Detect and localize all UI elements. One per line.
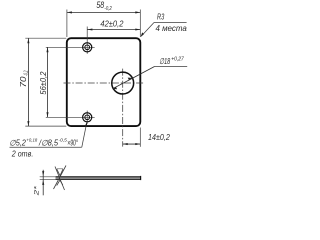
extension line right top (for 58/42) [139,10,141,38]
main horizontal axis (dash-dot) [64,82,144,84]
top small hole center lines [46,46,95,48]
D18 diameter leader [112,67,154,89]
svg-text:70: 70 [19,76,28,88]
side view plate bar [56,176,142,178]
svg-text:/∅8,5: /∅8,5 [38,138,58,147]
dimension 58 line [67,11,140,13]
thickness dimension line [42,170,44,196]
svg-text:42±0,2: 42±0,2 [100,18,123,28]
svg-text:-0,2: -0,2 [104,6,111,12]
dimension 56 line [47,47,49,117]
countersink holes leader [82,122,87,147]
dimension 56 text (rotated) [39,71,48,95]
plate outline (front view, 58x70 plate) [67,38,141,126]
R3 leader [141,23,154,37]
top small hole (countersunk, two circles) [83,43,92,52]
side view countersink cone (lower V) [57,180,63,185]
D18 shelf [155,66,188,68]
countersink callout shelf [10,146,82,148]
extension line right bottom (for 14) [139,128,141,147]
side view countersink top tick [57,168,63,170]
svg-text:-0,5: -0,5 [59,138,68,143]
svg-text:+0,27: +0,27 [171,56,184,62]
dimension 42 line [87,29,140,31]
svg-text:-0,2: -0,2 [24,70,30,76]
thickness text 2* (rotated) [34,186,41,197]
extension line left top (for 58) [66,10,68,38]
dimension 70 text (rotated) [19,70,30,87]
side view countersink cone (upper V) [57,169,63,176]
svg-text:14±0,2: 14±0,2 [148,132,170,142]
big hole vertical axis (dash-dot, also 14-dim extension) [122,69,124,147]
bottom small hole center lines [46,116,95,118]
side view countersink symbol: long diagonal 2 [55,167,65,191]
svg-text:4 места: 4 места [156,24,188,33]
dimension 70 line [27,38,29,126]
extension lines left (for 70) [25,37,66,39]
dimension 14 line [123,143,141,145]
svg-text:R3: R3 [157,13,165,22]
svg-text:∅5,2: ∅5,2 [9,138,26,147]
svg-text:∅18: ∅18 [159,56,170,66]
svg-text:58: 58 [96,0,104,10]
thickness extension lines [40,176,56,178]
svg-text:56±0,2: 56±0,2 [39,71,48,95]
bottom small hole (countersunk, two circles) [83,113,92,122]
svg-text:+0,18: +0,18 [26,138,37,143]
R3 shelf [154,22,187,24]
big hole D18 [112,72,134,94]
svg-text:2 отв.: 2 отв. [11,149,33,158]
side view countersink symbol: long diagonal 1 [54,166,67,190]
svg-text:2*: 2* [34,186,41,197]
svg-text:×90°: ×90° [67,138,78,147]
